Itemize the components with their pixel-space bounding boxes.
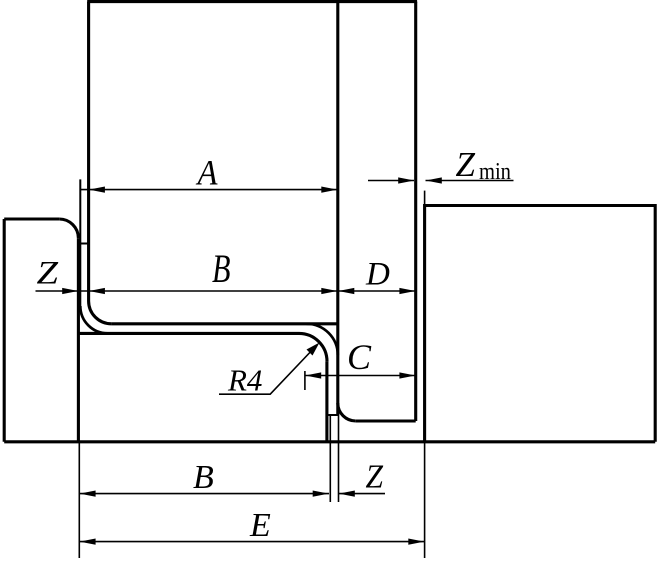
dim line B bottom: [79, 493, 329, 495]
ext line right block top: [424, 191, 426, 206]
arrow B mid left: [89, 288, 105, 294]
dim line Zmin right: [426, 180, 514, 182]
bottom base line: [4, 440, 655, 443]
die middle top edge / sheet bottom: [78, 332, 299, 335]
punch right edge: [414, 2, 417, 421]
arrow Zmin left: [398, 177, 414, 183]
svg-text:D: D: [365, 257, 390, 293]
ext line sheet outer bottom: [329, 416, 331, 502]
punch left edge: [87, 2, 90, 301]
svg-text:Z: Z: [366, 459, 384, 496]
ext line right block bottom: [424, 442, 426, 558]
svg-text:C: C: [347, 337, 372, 377]
arrow Zmin right: [426, 177, 442, 183]
arrow E left: [80, 539, 96, 545]
left block right edge: [77, 238, 80, 442]
svg-text:R4: R4: [227, 363, 262, 398]
arrow C right: [399, 372, 415, 378]
arrow Z bottom: [339, 491, 355, 497]
arrow B bottom left: [80, 491, 96, 497]
dim line Zmin left: [368, 180, 414, 182]
arrow R4 leader: [307, 343, 320, 356]
punch bottom edge left part: [111, 322, 337, 325]
arrow B bottom right: [313, 491, 329, 497]
punch top edge: [87, 0, 417, 3]
dim line C: [305, 375, 416, 377]
arrow C left: [305, 372, 321, 378]
sheet outer surface line: [79, 179, 81, 306]
left block top edge: [4, 217, 59, 220]
punch corner / sheet inner arc: [89, 301, 112, 324]
svg-text:A: A: [196, 153, 219, 193]
die corner radius R4: [299, 333, 327, 361]
dim line E: [79, 541, 424, 543]
punch divider / nose left face: [336, 2, 339, 415]
left block left edge: [3, 219, 6, 442]
dim line A: [80, 189, 338, 191]
leader R4: [219, 346, 316, 394]
sheet top end cap: [79, 243, 88, 245]
sheet bottom end cap: [328, 414, 338, 416]
arrow A right: [321, 187, 337, 193]
punch nose bottom-left arc: [338, 403, 356, 421]
sheet top surface right bend arc: [307, 324, 338, 355]
ext line sheet right bottom: [338, 415, 340, 502]
left block corner arc: [59, 219, 78, 238]
arrow A left: [89, 187, 105, 193]
right block outline: [425, 206, 656, 442]
ext line bottom left: [78, 442, 80, 558]
svg-text:E: E: [249, 507, 271, 544]
dim row Z B D: [36, 290, 416, 292]
arrow D left: [338, 288, 354, 294]
ext tick for C: [304, 371, 306, 390]
arrow D right: [399, 288, 415, 294]
svg-text:B: B: [212, 246, 231, 291]
dim line Z bottom: [339, 493, 386, 495]
svg-text:B: B: [193, 459, 214, 496]
arrow B mid right: [321, 288, 337, 294]
sheet outer arc left bend: [80, 306, 107, 333]
die middle right wall: [325, 361, 328, 441]
svg-text:Z: Z: [37, 256, 59, 292]
arrow Z left outside: [62, 288, 78, 294]
punch nose bottom edge: [356, 419, 416, 422]
arrow E right: [408, 539, 424, 545]
